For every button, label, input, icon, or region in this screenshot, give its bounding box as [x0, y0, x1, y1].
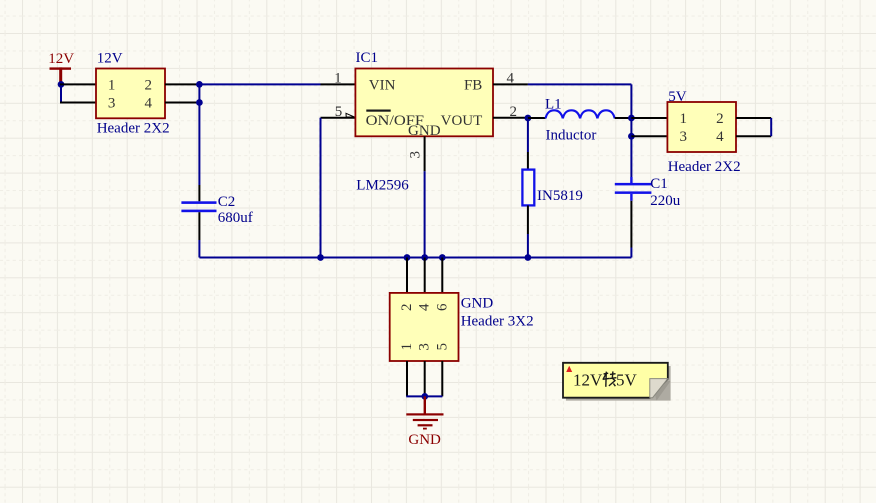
svg-text:4: 4 — [716, 129, 724, 145]
svg-text:5: 5 — [434, 343, 450, 351]
pin 2 VOUT wire of IC1 — [493, 117, 528, 119]
wire diode top — [527, 118, 529, 152]
pin 1 wire below P3 — [406, 361, 408, 396]
pin 1 wire of P2 header — [631, 117, 667, 119]
pin 4 wire of P1 header — [165, 102, 199, 104]
svg-text:L1: L1 — [545, 97, 562, 113]
node junction bus / IC GND — [421, 254, 428, 261]
wire ON/OFF net down to GND bus — [320, 118, 322, 258]
svg-text:IN5819: IN5819 — [537, 188, 583, 204]
svg-text:2: 2 — [399, 303, 415, 311]
inductor L1 left wire — [528, 117, 546, 119]
svg-text:C1: C1 — [650, 176, 668, 192]
svg-text:3: 3 — [417, 343, 433, 351]
svg-text:VOUT: VOUT — [441, 113, 483, 129]
pin 4 wire of P3 header — [424, 258, 426, 294]
header 2X2 P2 (5V output) — [667, 89, 740, 175]
node junction P1 pin2 — [196, 81, 203, 88]
pin 2 wire of P3 header — [406, 258, 408, 294]
wire FB net to C1 node — [528, 83, 632, 85]
pin 5 wire below P3 — [441, 361, 443, 396]
diode IN5819 body — [522, 170, 534, 206]
svg-text:5V: 5V — [616, 371, 638, 390]
diode D1 pin top — [527, 152, 529, 170]
wire GND bus — [199, 257, 631, 259]
wire net 12V vertical at power port — [60, 84, 62, 102]
svg-text:2: 2 — [145, 77, 153, 93]
svg-text:2: 2 — [716, 111, 724, 127]
wire 5V net vertical — [630, 84, 632, 177]
header 2X2 P1 (12V input) — [96, 51, 170, 137]
node junction bus / header pin2 — [404, 254, 411, 261]
pin 5 ON/OFF wire of IC1 — [321, 117, 356, 119]
svg-text:3: 3 — [679, 129, 687, 145]
svg-text:GND: GND — [408, 432, 441, 448]
pin 5 input marker — [346, 113, 354, 117]
node junction bus / ON-OFF — [317, 254, 324, 261]
svg-text:5: 5 — [335, 104, 343, 120]
svg-text:Header 2X2: Header 2X2 — [668, 159, 741, 175]
pin 1 VIN wire of IC1 — [321, 83, 356, 85]
inductor L1 right wire — [615, 117, 632, 119]
svg-text:5V: 5V — [668, 89, 687, 105]
node junction 5V / L1 — [628, 115, 635, 122]
svg-text:680uf: 680uf — [218, 210, 253, 226]
pin 6 wire of P3 header — [441, 258, 443, 294]
pin 3 wire of P1 header — [60, 102, 97, 104]
power port 12V — [48, 51, 74, 84]
pin 1 wire of P1 header — [60, 83, 97, 85]
svg-text:C2: C2 — [218, 194, 236, 210]
pin 3 wire below P3 — [424, 361, 426, 396]
note red triangle — [566, 366, 572, 372]
capacitor C1 — [615, 176, 681, 209]
wire joining P2 pins 2 and 4 — [770, 118, 772, 136]
svg-text:1: 1 — [679, 111, 687, 127]
node junction bus / header pin6 — [439, 254, 446, 261]
node junction GND — [421, 393, 428, 400]
wire vertical 12V net down to C2 — [198, 84, 200, 185]
inductor L1 — [545, 97, 615, 144]
pin 4 FB wire of IC1 — [493, 83, 528, 85]
svg-text:1: 1 — [108, 77, 116, 93]
note fold shadow — [652, 381, 671, 401]
svg-text:220u: 220u — [650, 193, 681, 209]
svg-text:3: 3 — [408, 151, 424, 159]
svg-text:Inductor: Inductor — [546, 127, 597, 143]
note fold corner — [650, 379, 668, 398]
svg-text:4: 4 — [145, 95, 153, 111]
pin 2 wire of P2 header — [736, 117, 771, 119]
ground symbol GND — [406, 396, 443, 448]
wire C1 down to bus — [630, 201, 632, 248]
svg-text:4: 4 — [417, 303, 433, 311]
node junction 5V pin3 — [628, 133, 635, 140]
svg-text:3: 3 — [108, 95, 116, 111]
node junction at power port — [58, 81, 65, 88]
wire diode bottom to bus — [527, 234, 529, 258]
svg-text:GND: GND — [461, 295, 494, 311]
node junction VOUT / diode — [525, 115, 532, 122]
diode pin bottom — [527, 205, 529, 234]
wire C2 to bus — [198, 240, 200, 258]
hanzi zhuan (drawn) — [603, 371, 617, 386]
svg-text:1: 1 — [334, 70, 342, 86]
svg-text:LM2596: LM2596 — [356, 177, 409, 193]
svg-text:FB: FB — [464, 78, 482, 94]
svg-text:12V: 12V — [97, 51, 123, 67]
note body — [563, 363, 668, 398]
svg-text:Header 3X2: Header 3X2 — [461, 313, 534, 329]
wire IC GND net down to bus — [424, 171, 426, 257]
svg-text:IC1: IC1 — [356, 50, 379, 66]
op-amp IC1 LM2596 — [334, 50, 517, 194]
note shadow — [566, 366, 671, 401]
wire joining bottom pins — [406, 395, 442, 397]
header 3X2 P3 (GND) — [390, 293, 534, 361]
svg-text:Header 2X2: Header 2X2 — [97, 120, 170, 136]
pin 3 GND wire of IC1 — [424, 136, 426, 171]
node junction bus / diode — [525, 254, 532, 261]
pin 4 wire of P2 header — [736, 135, 771, 137]
svg-text:6: 6 — [434, 303, 450, 311]
svg-text:VIN: VIN — [369, 78, 396, 94]
wire 12V net to IC VIN — [199, 83, 320, 85]
svg-text:12V: 12V — [48, 51, 74, 67]
svg-text:12V: 12V — [573, 371, 603, 390]
note 12V to 5V — [563, 363, 671, 401]
node junction P1 pin4 — [196, 99, 203, 106]
svg-text:1: 1 — [399, 343, 415, 351]
capacitor C2 — [181, 185, 252, 240]
pin 3 wire of P2 header — [631, 135, 667, 137]
pin 2 wire of P1 header — [165, 83, 199, 85]
